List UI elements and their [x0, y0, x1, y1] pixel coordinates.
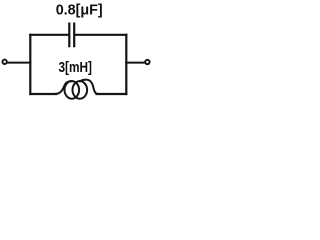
inductor 3mH loop 1 — [65, 81, 80, 99]
wire top-left segment — [30, 34, 68, 36]
svg-text:3[mH]: 3[mH] — [58, 60, 92, 76]
wire top-right segment — [75, 34, 126, 36]
wire bottom-left segment — [30, 93, 56, 95]
wire bottom-right segment — [97, 93, 127, 95]
wire left vertical branch — [29, 35, 31, 94]
svg-text:0.8[μF]: 0.8[μF] — [56, 1, 103, 18]
wire left terminal lead — [7, 62, 30, 64]
inductor 3mH loop 2 — [73, 81, 88, 99]
inductor 3mH exit curve — [80, 80, 98, 94]
wire right terminal lead — [126, 62, 144, 64]
terminal left circle — [2, 60, 6, 64]
capacitor 0.8uF left plate — [68, 24, 70, 47]
terminal right circle — [145, 60, 149, 64]
capacitor 0.8uF right plate — [73, 24, 75, 47]
wire right vertical branch — [125, 35, 127, 94]
inductor 3mH entry curve — [56, 81, 72, 94]
